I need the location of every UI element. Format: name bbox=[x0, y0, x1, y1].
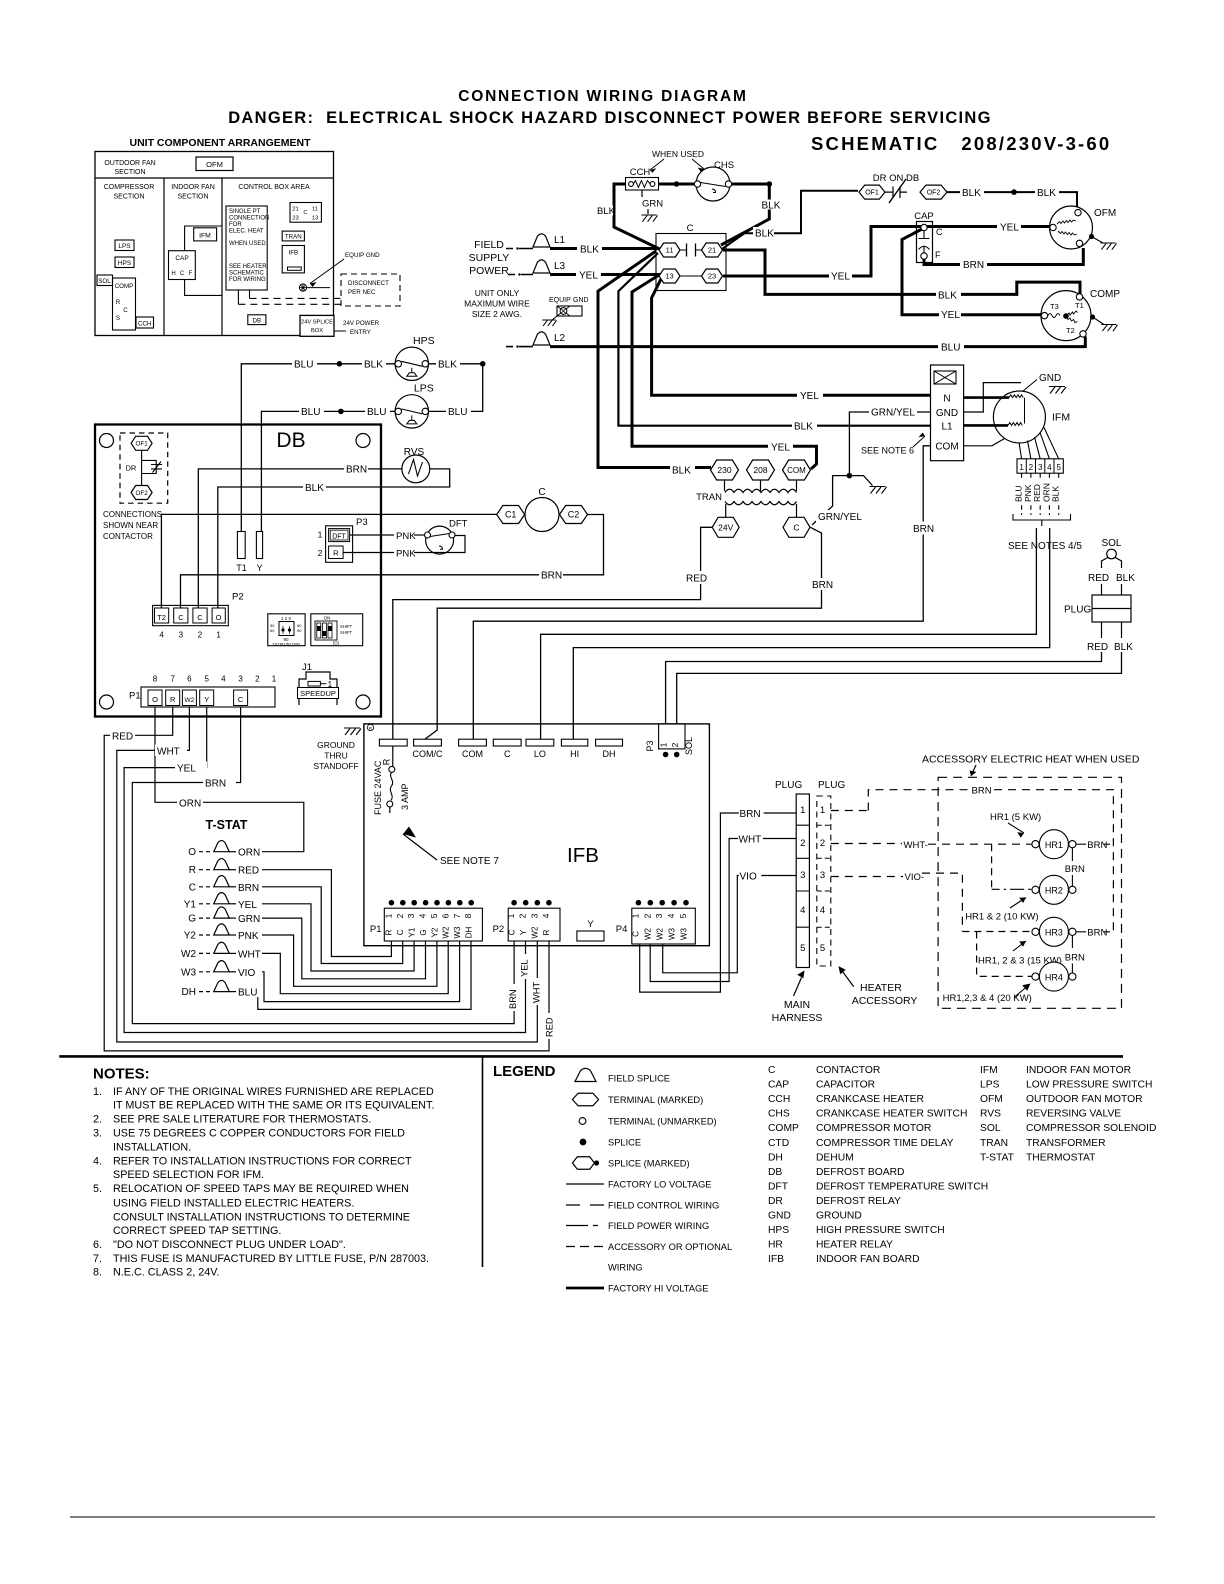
svg-text:GND: GND bbox=[573, 297, 589, 304]
T-STAT terminal DH field splice bbox=[182, 980, 236, 998]
svg-text:G: G bbox=[188, 914, 196, 925]
SOL plug bbox=[1064, 584, 1133, 653]
svg-text:DH: DH bbox=[182, 987, 196, 998]
svg-text:SOL: SOL bbox=[684, 737, 694, 755]
svg-text:WHT: WHT bbox=[739, 835, 762, 846]
svg-text:4: 4 bbox=[1047, 463, 1052, 472]
svg-text:CONNECTION WIRING DIAGRAM: CONNECTION WIRING DIAGRAM bbox=[458, 88, 748, 105]
svg-text:SCHEMATIC 208/230V-3-60: SCHEMATIC 208/230V-3-60 bbox=[811, 133, 1111, 154]
wire: DB P1-W2 WHT bus to IFB P2-W2 bbox=[117, 707, 543, 1042]
wire: T-STAT PNK to IFB P1 bbox=[236, 929, 437, 986]
svg-text:CRANKCASE HEATER SWITCH: CRANKCASE HEATER SWITCH bbox=[816, 1109, 967, 1120]
wire: P4-2 W2 to main plug 2 WHT bbox=[650, 835, 796, 982]
ground at CCH GRN bbox=[641, 190, 663, 222]
svg-text:21: 21 bbox=[292, 207, 298, 213]
svg-text:SECTION: SECTION bbox=[114, 169, 145, 176]
wire: contactor 21 BLK to COMP T1 bbox=[723, 250, 1080, 302]
svg-text:P1: P1 bbox=[129, 691, 141, 702]
svg-text:T1: T1 bbox=[1075, 301, 1084, 310]
svg-text:HR2: HR2 bbox=[1045, 886, 1063, 896]
svg-text:MAXIMUM WIRE: MAXIMUM WIRE bbox=[464, 299, 530, 309]
svg-text:208: 208 bbox=[753, 465, 767, 475]
svg-text:W2: W2 bbox=[185, 697, 195, 704]
svg-text:USING FIELD INSTALLED ELECTRIC: USING FIELD INSTALLED ELECTRIC HEATERS. bbox=[113, 1197, 354, 1209]
svg-text:H: H bbox=[171, 271, 175, 277]
svg-text:CONTROL BOX AREA: CONTROL BOX AREA bbox=[238, 184, 310, 191]
svg-text:EQUIP: EQUIP bbox=[549, 297, 571, 304]
L2 field splice bbox=[506, 332, 566, 348]
TRAN box (arrangement) bbox=[282, 231, 304, 241]
indoor fan motor IFM bbox=[964, 383, 1070, 446]
ground thru standoff note bbox=[313, 724, 373, 771]
CCH box (arrangement) bbox=[136, 317, 154, 328]
wire: T-STAT GRN to IFB P1 bbox=[236, 912, 426, 979]
svg-text:GND: GND bbox=[1039, 373, 1061, 384]
svg-text:1: 1 bbox=[630, 913, 640, 918]
crankcase heater switch CHS bbox=[694, 160, 734, 201]
svg-text:8.: 8. bbox=[93, 1266, 102, 1278]
svg-text:1: 1 bbox=[1019, 463, 1024, 472]
accessory electric heat label bbox=[922, 754, 1140, 777]
svg-text:SEE NOTE 7: SEE NOTE 7 bbox=[440, 856, 499, 867]
wire: T-STAT RED to IFB P1 bbox=[236, 864, 391, 957]
IFB terminal LO bbox=[526, 739, 554, 759]
svg-text:ON: ON bbox=[324, 616, 331, 621]
svg-text:3: 3 bbox=[179, 631, 184, 640]
legend symbols bbox=[493, 1063, 732, 1294]
svg-text:C2: C2 bbox=[568, 510, 580, 520]
svg-text:CAP: CAP bbox=[768, 1080, 789, 1091]
svg-text:DH: DH bbox=[768, 1152, 783, 1163]
svg-text:F: F bbox=[189, 271, 193, 277]
heater relay HR4 bbox=[1032, 935, 1085, 991]
svg-text:DB: DB bbox=[252, 317, 261, 324]
Y terminal (IFB) bbox=[577, 919, 604, 941]
svg-text:LO: LO bbox=[534, 749, 546, 759]
svg-text:BLU: BLU bbox=[238, 988, 257, 999]
unit only max wire note bbox=[464, 288, 530, 319]
svg-text:BLK: BLK bbox=[1116, 573, 1135, 584]
svg-text:YEL: YEL bbox=[520, 959, 530, 977]
svg-text:1: 1 bbox=[800, 805, 805, 816]
main harness plug bbox=[775, 780, 809, 968]
svg-text:C: C bbox=[180, 271, 185, 277]
when used note bbox=[650, 149, 704, 173]
svg-text:BLK: BLK bbox=[962, 188, 981, 199]
IFM terminal strip box bbox=[931, 365, 964, 461]
svg-text:R: R bbox=[385, 929, 394, 935]
IFB box (arrangement) bbox=[282, 246, 304, 273]
title: DANGER warning bbox=[228, 109, 992, 127]
svg-text:CAP: CAP bbox=[175, 255, 188, 262]
svg-text:BRN: BRN bbox=[812, 580, 833, 591]
svg-text:NOTES:: NOTES: bbox=[93, 1066, 150, 1083]
svg-text:2: 2 bbox=[800, 838, 805, 849]
svg-text:CONTACTOR: CONTACTOR bbox=[103, 532, 153, 541]
CAP box (arrangement) bbox=[169, 226, 223, 295]
terminal C1 bbox=[497, 506, 525, 524]
svg-text:2: 2 bbox=[198, 631, 203, 640]
svg-text:BRN: BRN bbox=[913, 524, 934, 535]
wire: BRN C to IFB COM/C terminal bbox=[425, 527, 835, 739]
svg-text:C: C bbox=[189, 882, 196, 893]
svg-text:BOX: BOX bbox=[311, 328, 323, 334]
svg-text:1 2 0: 1 2 0 bbox=[281, 616, 292, 621]
svg-text:HR: HR bbox=[768, 1240, 783, 1251]
svg-text:Y2: Y2 bbox=[430, 927, 439, 937]
svg-text:SOL: SOL bbox=[98, 278, 111, 285]
svg-text:CAPACITOR: CAPACITOR bbox=[816, 1080, 875, 1091]
svg-text:IT MUST BE REPLACED WITH THE S: IT MUST BE REPLACED WITH THE SAME OR ITS… bbox=[113, 1100, 434, 1112]
terminal 24V bbox=[712, 517, 739, 537]
T-STAT terminal C field splice bbox=[189, 876, 236, 894]
unit component arrangement box bbox=[95, 137, 334, 336]
IFM ground bbox=[1023, 373, 1066, 394]
P2 connector (IFB) bbox=[493, 900, 560, 941]
single point connection note box bbox=[226, 206, 269, 290]
svg-text:GND: GND bbox=[768, 1211, 791, 1222]
svg-text:2: 2 bbox=[1029, 463, 1034, 472]
svg-text:DB: DB bbox=[276, 429, 305, 452]
wire: SOL BLK to P3-2 bbox=[677, 652, 1122, 724]
wire: contactor 11 to 230 hex BLK bbox=[598, 251, 711, 477]
svg-text:W2: W2 bbox=[644, 927, 653, 940]
svg-text:SECTION: SECTION bbox=[177, 194, 208, 201]
svg-text:RED: RED bbox=[686, 574, 707, 585]
svg-text:OF1: OF1 bbox=[135, 441, 148, 448]
24V splice box (arrangement) bbox=[300, 315, 380, 336]
svg-text:SPEED SELECTION FOR IFM.: SPEED SELECTION FOR IFM. bbox=[113, 1169, 264, 1181]
svg-text:2: 2 bbox=[670, 742, 680, 747]
svg-text:LPS: LPS bbox=[118, 243, 131, 250]
svg-text:BLU: BLU bbox=[367, 407, 386, 418]
svg-text:WHT: WHT bbox=[157, 747, 180, 758]
svg-text:PER NEC: PER NEC bbox=[348, 289, 376, 296]
SOL box (arrangement) bbox=[97, 275, 113, 286]
svg-text:GRN: GRN bbox=[238, 914, 260, 925]
svg-text:Y2: Y2 bbox=[184, 931, 197, 942]
DIP switch block 2 bbox=[311, 614, 363, 646]
svg-text:5: 5 bbox=[204, 675, 209, 684]
svg-text:5: 5 bbox=[429, 913, 439, 918]
high pressure switch HPS bbox=[395, 335, 434, 381]
svg-text:7: 7 bbox=[452, 913, 462, 918]
svg-text:2: 2 bbox=[642, 913, 652, 918]
svg-text:C: C bbox=[178, 613, 184, 622]
IFB terminal COM bbox=[459, 739, 487, 759]
svg-text:CONNECTIONS: CONNECTIONS bbox=[103, 510, 162, 519]
wire: SOL RED to P3-1 bbox=[666, 652, 1102, 724]
svg-text:3: 3 bbox=[800, 870, 805, 881]
svg-text:VIO-: VIO- bbox=[905, 872, 925, 883]
svg-text:VIO: VIO bbox=[238, 968, 255, 979]
svg-text:"DO NOT DISCONNECT PLUG UNDER: "DO NOT DISCONNECT PLUG UNDER LOAD". bbox=[113, 1239, 346, 1251]
svg-text:BRN: BRN bbox=[1065, 864, 1085, 875]
svg-text:IFB: IFB bbox=[288, 250, 298, 257]
svg-text:LEGEND: LEGEND bbox=[493, 1063, 556, 1080]
COMP ground bbox=[1090, 314, 1118, 331]
wire: OF2 BLK to OFM top bbox=[947, 186, 1077, 210]
T1 quick connect bar bbox=[236, 532, 247, 574]
bottom rule bbox=[70, 1516, 1155, 1518]
svg-text:HR1,2,3 & 4 (20 KW): HR1,2,3 & 4 (20 KW) bbox=[943, 993, 1032, 1004]
compressor motor COMP bbox=[1041, 289, 1120, 341]
wire: L2 BLU to COMP T2 bbox=[550, 337, 1085, 354]
svg-text:COMP: COMP bbox=[115, 283, 134, 290]
svg-text:SUPPLY: SUPPLY bbox=[469, 252, 510, 264]
svg-text:INSTALLATION.: INSTALLATION. bbox=[113, 1141, 191, 1153]
svg-text:T1: T1 bbox=[236, 563, 247, 573]
svg-text:BRN: BRN bbox=[963, 260, 984, 271]
svg-text:CCH: CCH bbox=[138, 321, 151, 328]
svg-text:SPLICE (MARKED): SPLICE (MARKED) bbox=[608, 1159, 690, 1169]
svg-text:230: 230 bbox=[717, 465, 731, 475]
terminal C (24v) bbox=[783, 517, 810, 537]
svg-text:TRANSFORMER: TRANSFORMER bbox=[1026, 1138, 1106, 1149]
svg-text:IF ANY OF THE ORIGINAL WIRES F: IF ANY OF THE ORIGINAL WIRES FURNISHED A… bbox=[113, 1086, 434, 1098]
svg-text:5.: 5. bbox=[93, 1183, 102, 1195]
svg-text:GROUND: GROUND bbox=[816, 1211, 862, 1222]
svg-text:11: 11 bbox=[666, 246, 674, 255]
svg-text:SHOWN NEAR: SHOWN NEAR bbox=[103, 521, 158, 530]
svg-text:BRN: BRN bbox=[541, 571, 562, 582]
svg-text:F: F bbox=[935, 250, 941, 260]
T-STAT terminal W3 field splice bbox=[181, 961, 236, 979]
svg-text:DR: DR bbox=[768, 1196, 783, 1207]
svg-text:FUSE 24VAC: FUSE 24VAC bbox=[373, 760, 383, 815]
svg-text:3: 3 bbox=[238, 675, 243, 684]
svg-text:DEHUM: DEHUM bbox=[816, 1152, 854, 1163]
HR1 2 3 and 4 20KW label bbox=[943, 984, 1032, 1005]
svg-text:CRANKCASE HEATER: CRANKCASE HEATER bbox=[816, 1094, 924, 1105]
svg-text:BLK: BLK bbox=[672, 466, 691, 477]
svg-text:SIZE 2 AWG.: SIZE 2 AWG. bbox=[472, 309, 522, 319]
svg-text:HPS: HPS bbox=[413, 335, 435, 347]
svg-text:R: R bbox=[333, 549, 339, 558]
svg-text:DR ON DB: DR ON DB bbox=[873, 173, 919, 184]
DB box (arrangement) bbox=[248, 315, 266, 325]
wire: P4-1 C to main plug 1 BRN bbox=[640, 809, 797, 992]
svg-text:[O]: [O] bbox=[333, 641, 339, 646]
svg-text:Y: Y bbox=[587, 919, 594, 930]
svg-text:IFB: IFB bbox=[768, 1254, 784, 1265]
low pressure switch LPS bbox=[395, 382, 434, 428]
wire: HPS right BLK down to LPS bbox=[429, 358, 486, 419]
svg-text:1.: 1. bbox=[93, 1086, 102, 1098]
svg-text:4: 4 bbox=[418, 913, 428, 918]
dashed wiring to disconnect bbox=[238, 290, 341, 304]
wire: CAP F BRN to OFM bbox=[924, 248, 1083, 271]
svg-text:HARNESS: HARNESS bbox=[772, 1012, 823, 1024]
svg-text:Y: Y bbox=[519, 929, 528, 935]
svg-text:HIGH PRESSURE SWITCH: HIGH PRESSURE SWITCH bbox=[816, 1225, 945, 1236]
heater relay HR3 bbox=[1032, 917, 1114, 946]
svg-text:SPLICE: SPLICE bbox=[608, 1138, 641, 1148]
svg-text:7: 7 bbox=[170, 675, 175, 684]
svg-text:P4: P4 bbox=[616, 924, 628, 935]
equip gnd lug (field) bbox=[542, 297, 588, 326]
terminal C2 bbox=[560, 506, 588, 524]
svg-text:C: C bbox=[687, 223, 694, 234]
fuse 24VAC 3 AMP bbox=[373, 746, 410, 815]
svg-text:POWER: POWER bbox=[469, 265, 509, 277]
svg-text:SINGLE PT: SINGLE PT bbox=[229, 209, 261, 215]
svg-text:C: C bbox=[396, 929, 405, 935]
svg-text:COM: COM bbox=[787, 466, 806, 475]
svg-text:YEL: YEL bbox=[579, 271, 598, 282]
DIP switch block 1 bbox=[268, 614, 305, 647]
svg-text:ACCESSORY: ACCESSORY bbox=[852, 995, 918, 1007]
svg-text:T3: T3 bbox=[1050, 302, 1059, 311]
wire: L3 YEL to contactor 13 bbox=[550, 268, 661, 282]
field supply power label bbox=[469, 239, 510, 277]
wire: T-STAT VIO to IFB P1 bbox=[236, 941, 460, 1002]
svg-text:TRAN: TRAN bbox=[285, 234, 302, 241]
svg-text:YEL: YEL bbox=[800, 391, 819, 402]
svg-text:OUTDOOR FAN MOTOR: OUTDOOR FAN MOTOR bbox=[1026, 1094, 1143, 1105]
svg-text:90: 90 bbox=[297, 628, 302, 633]
OFM ground bbox=[1089, 234, 1117, 250]
svg-text:13: 13 bbox=[312, 216, 318, 222]
svg-text:BLK: BLK bbox=[597, 206, 616, 217]
indoor fan board IFB box bbox=[364, 724, 710, 946]
svg-text:HPS: HPS bbox=[768, 1225, 789, 1236]
wire: contactor 11 BLK to IFM L1 bbox=[618, 253, 930, 433]
svg-text:YEL: YEL bbox=[238, 900, 257, 911]
svg-text:STANDOFF: STANDOFF bbox=[313, 761, 358, 771]
svg-text:YEL: YEL bbox=[771, 443, 790, 454]
wire: DB P1-R RED bus to IFB P2-R bbox=[104, 707, 556, 1051]
svg-text:CORRECT SPEED TAP SETTING.: CORRECT SPEED TAP SETTING. bbox=[113, 1225, 281, 1237]
HPS box (arrangement) bbox=[115, 257, 134, 268]
svg-text:BRN: BRN bbox=[508, 989, 518, 1009]
wire: P4-3 W2 to main plug 3 VIO bbox=[663, 872, 797, 973]
svg-text:COM: COM bbox=[935, 442, 958, 453]
svg-text:IFM: IFM bbox=[1052, 412, 1070, 424]
svg-text:W2: W2 bbox=[531, 926, 540, 939]
svg-text:P3: P3 bbox=[645, 740, 655, 751]
speed tap bracket bbox=[1013, 514, 1071, 526]
svg-text:ORN: ORN bbox=[238, 848, 260, 859]
P3 connector (DB) bbox=[318, 517, 368, 562]
main harness callout bbox=[772, 971, 823, 1025]
svg-text:OF1: OF1 bbox=[865, 190, 879, 197]
svg-text:DISCONNECT: DISCONNECT bbox=[348, 280, 389, 287]
svg-text:8: 8 bbox=[153, 675, 158, 684]
svg-text:HEATER: HEATER bbox=[860, 982, 902, 994]
svg-text:COMP: COMP bbox=[1090, 289, 1120, 300]
contactor terminals box (arrangement) bbox=[290, 203, 321, 223]
svg-text:BLU: BLU bbox=[294, 360, 313, 371]
svg-text:GRN/YEL: GRN/YEL bbox=[818, 512, 862, 523]
wire: T-STAT O ORN from DB P1-O bbox=[155, 707, 304, 859]
svg-text:4: 4 bbox=[800, 905, 805, 916]
heater accessory plug (dashed) bbox=[817, 780, 846, 966]
svg-text:S: S bbox=[116, 315, 120, 322]
wire: CHS to splice and down to contactor 21 bbox=[721, 181, 781, 245]
svg-text:TRAN: TRAN bbox=[980, 1138, 1008, 1149]
svg-text:SOL: SOL bbox=[980, 1123, 1001, 1134]
svg-text:OFM: OFM bbox=[980, 1094, 1003, 1105]
svg-text:BRN: BRN bbox=[740, 809, 761, 820]
svg-text:L1: L1 bbox=[554, 235, 566, 246]
svg-text:1: 1 bbox=[820, 805, 825, 816]
svg-text:GRN: GRN bbox=[642, 199, 663, 210]
svg-text:DEFROST BOARD: DEFROST BOARD bbox=[816, 1167, 905, 1178]
IFB terminal COM/C bbox=[413, 739, 443, 759]
wire: contactor 13 YEL to IFM N bbox=[652, 279, 931, 402]
svg-text:YEL: YEL bbox=[941, 310, 960, 321]
wire: CAP C YEL to COMP T3 bbox=[902, 229, 1042, 321]
svg-text:HEATER RELAY: HEATER RELAY bbox=[816, 1240, 893, 1251]
svg-text:3 AMP: 3 AMP bbox=[400, 783, 410, 810]
wire: T1 to HPS BLU/BLK bbox=[241, 358, 395, 532]
svg-text:REVERSING VALVE: REVERSING VALVE bbox=[1026, 1109, 1121, 1120]
wire: PNK DFT cell to switch bbox=[350, 531, 425, 542]
terminal COM bbox=[783, 460, 811, 480]
svg-text:LPS: LPS bbox=[414, 382, 434, 394]
svg-text:P3: P3 bbox=[356, 517, 368, 528]
svg-text:DEFROST RELAY: DEFROST RELAY bbox=[816, 1196, 901, 1207]
svg-text:BLU: BLU bbox=[301, 407, 320, 418]
svg-text:SEE HEATER: SEE HEATER bbox=[229, 264, 267, 270]
svg-text:BLK: BLK bbox=[364, 360, 383, 371]
svg-text:BLK: BLK bbox=[1114, 642, 1133, 653]
svg-text:BLK: BLK bbox=[438, 360, 457, 371]
svg-text:COMPRESSOR MOTOR: COMPRESSOR MOTOR bbox=[816, 1123, 931, 1134]
svg-text:BLK: BLK bbox=[580, 245, 599, 256]
svg-text:HI: HI bbox=[570, 749, 579, 759]
equip gnd splice (arrangement) bbox=[299, 252, 380, 291]
svg-text:C: C bbox=[507, 929, 516, 935]
IFB terminal DH bbox=[596, 739, 623, 759]
svg-text:BRN: BRN bbox=[1087, 928, 1107, 939]
svg-text:DFT: DFT bbox=[768, 1181, 789, 1192]
wire: P2-4 T2 to coil C1 bbox=[161, 514, 497, 608]
svg-text:C: C bbox=[504, 749, 511, 759]
wire: BRN P2-2 to RVS bbox=[198, 463, 402, 609]
wire: contactor 21 BLK to OF1 bbox=[722, 191, 858, 249]
svg-text:RED: RED bbox=[545, 1017, 555, 1037]
svg-text:ACCESSORY OR OPTIONAL: ACCESSORY OR OPTIONAL bbox=[608, 1242, 732, 1252]
svg-text:RED: RED bbox=[1087, 642, 1108, 653]
heater relay HR1 bbox=[990, 812, 1113, 859]
svg-text:GND: GND bbox=[936, 408, 958, 419]
defrost relay contact DR ON DB bbox=[859, 173, 947, 203]
svg-text:2: 2 bbox=[518, 913, 528, 918]
svg-text:R: R bbox=[170, 695, 176, 704]
svg-text:13: 13 bbox=[665, 272, 673, 281]
svg-text:C: C bbox=[632, 931, 641, 937]
P3 connector (IFB) bbox=[645, 724, 694, 757]
svg-text:C: C bbox=[303, 210, 307, 216]
svg-text:TST[RUN] TRN: TST[RUN] TRN bbox=[272, 642, 300, 647]
contactor C box bbox=[656, 223, 726, 291]
svg-text:23: 23 bbox=[708, 272, 716, 281]
svg-text:HR1: HR1 bbox=[1045, 840, 1063, 850]
svg-text:4: 4 bbox=[221, 675, 226, 684]
svg-text:FOR: FOR bbox=[229, 222, 242, 228]
svg-text:24V POWER: 24V POWER bbox=[343, 320, 380, 327]
svg-text:IFM: IFM bbox=[199, 232, 211, 239]
svg-text:FIELD POWER WIRING: FIELD POWER WIRING bbox=[608, 1221, 709, 1231]
T-STAT terminal R field splice bbox=[189, 859, 236, 877]
svg-text:3: 3 bbox=[529, 913, 539, 918]
svg-text:SEE NOTES 4/5: SEE NOTES 4/5 bbox=[1008, 541, 1082, 552]
svg-text:CCH: CCH bbox=[768, 1094, 790, 1105]
svg-text:IFM: IFM bbox=[980, 1065, 998, 1076]
svg-text:HPS: HPS bbox=[118, 260, 132, 267]
